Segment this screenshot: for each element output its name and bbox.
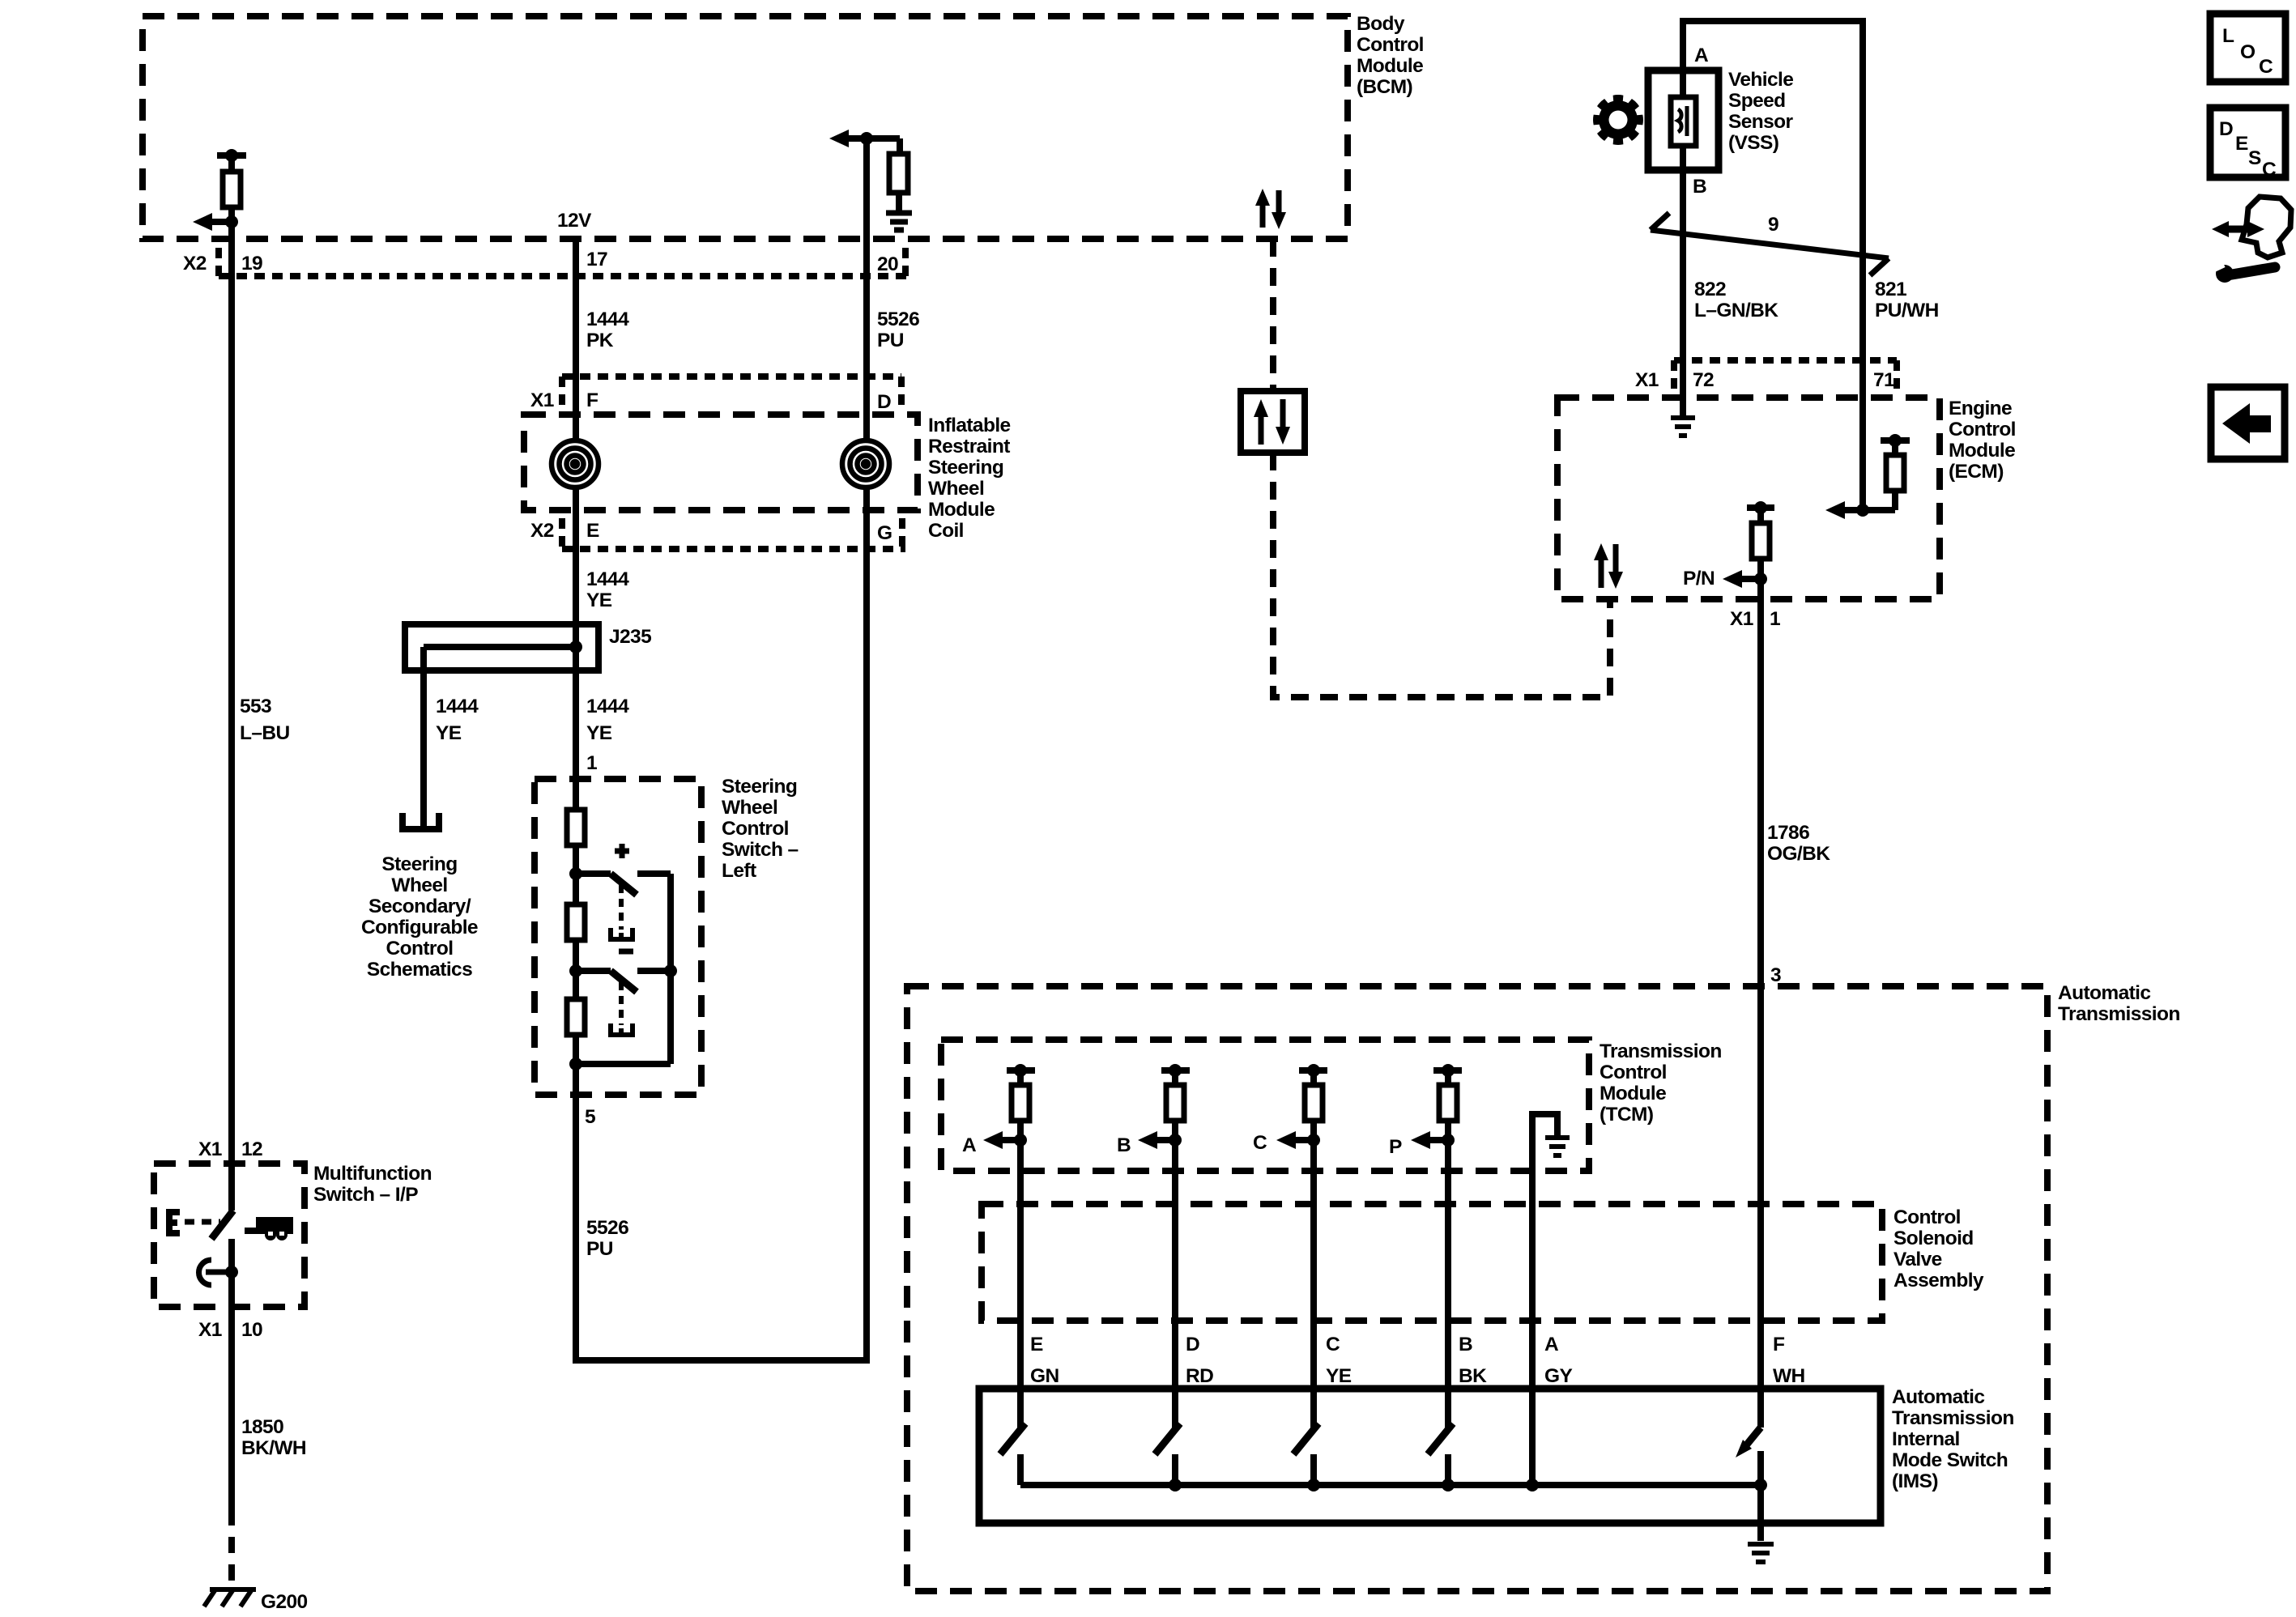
svg-text:(VSS): (VSS) [1728, 132, 1778, 154]
svg-text:Automatic: Automatic [2058, 982, 2150, 1004]
svg-text:P: P [1389, 1136, 1402, 1158]
svg-text:YE: YE [436, 722, 462, 744]
TCM discrete input P [1411, 1064, 1462, 1149]
svg-text:(ECM): (ECM) [1949, 461, 2004, 483]
svg-text:9: 9 [1768, 214, 1778, 236]
VSS inner pickup marks [1678, 106, 1687, 136]
IMS ground drop [1757, 1485, 1764, 1541]
svg-text:X1: X1 [1635, 369, 1659, 391]
node D bus [1169, 1479, 1182, 1491]
svg-text:RD: RD [1186, 1365, 1213, 1387]
up-down data arrows inside BCM [1255, 189, 1286, 229]
resistor 1 in steering wheel switch [567, 810, 585, 845]
TCM discrete input C [1276, 1064, 1327, 1149]
node A bus [1526, 1479, 1539, 1491]
svg-text:Wheel: Wheel [928, 478, 984, 500]
svg-text:Transmission: Transmission [2058, 1003, 2180, 1025]
svg-text:Module: Module [1600, 1083, 1666, 1104]
svg-text:X1: X1 [198, 1319, 222, 1341]
svg-text:Configurable: Configurable [361, 917, 478, 938]
IMS contact C lower wire [1310, 1454, 1317, 1485]
svg-text:Secondary/: Secondary/ [368, 896, 471, 917]
DESC legend box [2210, 108, 2285, 177]
IMS contact D lower wire [1172, 1454, 1178, 1485]
node: bottom junction [569, 1057, 582, 1070]
svg-text:Schematics: Schematics [367, 959, 472, 981]
svg-text:YE: YE [1326, 1365, 1352, 1387]
detent bracket top switch [611, 928, 633, 939]
svg-text:OG/BK: OG/BK [1767, 843, 1830, 865]
svg-text:Sensor: Sensor [1728, 111, 1794, 133]
svg-text:Speed: Speed [1728, 90, 1786, 112]
tow/haul switch blade [211, 1211, 233, 1239]
svg-text:Module: Module [928, 499, 995, 521]
pull-up resistor in ECM on pin 71 [1845, 434, 1910, 510]
svg-text:1850: 1850 [241, 1416, 283, 1438]
IMS switch blade E [1000, 1423, 1025, 1454]
svg-text:(IMS): (IMS) [1892, 1470, 1938, 1492]
wire B from TCM P to IMS [1445, 1140, 1451, 1428]
IMS switch blade C [1293, 1423, 1318, 1454]
svg-text:Control: Control [386, 938, 454, 960]
wire E from TCM A to IMS [1017, 1140, 1024, 1428]
J235 splice pack [405, 624, 598, 670]
svg-text:X1: X1 [198, 1138, 222, 1160]
svg-text:PU: PU [586, 1238, 613, 1260]
svg-text:Automatic: Automatic [1892, 1386, 1984, 1408]
branch wire 1444 YE to secondary controls [420, 647, 427, 829]
Multifunction Switch - I/P dashed box [154, 1164, 305, 1307]
actuator dashes from E [185, 1219, 220, 1225]
wire C from TCM C to IMS [1310, 1140, 1317, 1428]
connector service icon: connector shell outline [2242, 197, 2291, 257]
svg-text:1444: 1444 [586, 568, 629, 590]
actuator dashed link lower switch [619, 982, 624, 1025]
svg-text:821: 821 [1875, 279, 1906, 300]
back arrow glyph [2222, 403, 2271, 444]
svg-text:Restraint: Restraint [928, 436, 1010, 457]
svg-text:F: F [586, 389, 598, 411]
ECM connector X1 dotted line (72,71) [1674, 357, 1897, 364]
svg-text:C: C [1253, 1132, 1267, 1154]
svg-text:P/N: P/N [1683, 568, 1715, 589]
svg-text:Left: Left [722, 860, 756, 882]
svg-text:L–GN/BK: L–GN/BK [1694, 300, 1778, 321]
svg-text:1: 1 [586, 752, 597, 774]
detent bracket lower switch [611, 1023, 633, 1035]
resistor+arrow+ground in BCM at pin 20 [867, 138, 912, 230]
svg-text:(BCM): (BCM) [1357, 76, 1412, 98]
svg-text:Assembly: Assembly [1893, 1270, 1984, 1291]
X1 tick right [898, 377, 905, 407]
wire between resistor2 and junction2 [573, 940, 579, 999]
svg-text:Transmission: Transmission [1600, 1040, 1722, 1062]
svg-text:20: 20 [877, 253, 898, 275]
clockspring coil spiral (right, circuit 5526) [842, 440, 889, 487]
svg-text:X1: X1 [1730, 608, 1753, 630]
svg-text:Control: Control [1893, 1206, 1961, 1228]
svg-text:G: G [877, 522, 892, 544]
svg-text:Module: Module [1949, 440, 2015, 462]
node F bus [1754, 1479, 1767, 1491]
Vehicle Speed Sensor loop wire A to 71 [1683, 21, 1863, 510]
svg-text:Engine: Engine [1949, 398, 2012, 419]
resistor 2 in steering wheel switch [567, 904, 585, 940]
clockspring coil spiral (left, circuit 1444) [552, 440, 598, 487]
svg-text:1444: 1444 [436, 696, 479, 717]
connector X2 dotted line (coil pins E,G) [562, 546, 905, 552]
IMS common bus [1020, 1482, 1761, 1488]
svg-text:Vehicle: Vehicle [1728, 69, 1793, 91]
back arrow legend box [2211, 387, 2285, 459]
LOC legend box [2210, 14, 2285, 82]
svg-text:Module: Module [1357, 55, 1423, 77]
ground symbol inside ECM on pin 72 [1671, 418, 1695, 436]
svg-text:5: 5 [585, 1106, 595, 1128]
Inflatable Restraint Steering Wheel Module Coil dashed box [524, 415, 918, 510]
switch common right wire [667, 874, 674, 1064]
svg-text:72: 72 [1693, 369, 1714, 391]
svg-text:A: A [1694, 45, 1709, 66]
svg-text:GN: GN [1030, 1365, 1059, 1387]
svg-text:1444: 1444 [586, 696, 629, 717]
Engine Control Module (ECM) dashed box [1557, 398, 1940, 599]
signal arrow at BCM pin 19 [193, 213, 238, 231]
svg-text:(TCM): (TCM) [1600, 1104, 1653, 1126]
svg-text:PU/WH: PU/WH [1875, 300, 1939, 321]
X2 connector tick right [902, 248, 909, 276]
Automatic Transmission dashed box [907, 986, 2047, 1591]
Body Control Module (BCM) dashed box [143, 16, 1348, 239]
signal arrow at ECM pin 71 [1825, 501, 1845, 519]
svg-text:Switch – I/P: Switch – I/P [313, 1184, 418, 1206]
svg-text:X2: X2 [530, 520, 554, 542]
E coil glyph [166, 1209, 180, 1236]
svg-text:Wheel: Wheel [391, 874, 447, 896]
svg-text:Control: Control [1357, 34, 1424, 56]
svg-text:Steering: Steering [928, 457, 1003, 479]
BCM connector X2 dotted line (pins 19,17,20) [219, 273, 907, 279]
svg-text:S: S [2248, 147, 2261, 169]
svg-text:C: C [2262, 159, 2277, 181]
X2 tick right [899, 518, 905, 549]
svg-text:G200: G200 [261, 1591, 308, 1613]
IMS switch blade B [1428, 1423, 1453, 1454]
svg-text:Mode Switch: Mode Switch [1892, 1449, 2008, 1471]
svg-text:Valve: Valve [1893, 1249, 1942, 1270]
node: right junction [664, 964, 677, 977]
svg-text:L: L [2222, 25, 2234, 47]
svg-text:Body: Body [1357, 13, 1405, 35]
node: junction top switch [569, 867, 582, 880]
svg-text:Steering: Steering [381, 853, 457, 875]
node C bus [1307, 1479, 1320, 1491]
bottom link wire [576, 1061, 671, 1067]
svg-text:5526: 5526 [586, 1217, 628, 1239]
signal arrow at BCM pin 20 [829, 130, 873, 147]
svg-text:B: B [1693, 176, 1706, 198]
wire circuit 1786 OG/BK from ECM X1-1 down to IMS pin F [1757, 579, 1764, 1428]
svg-text:L–BU: L–BU [240, 722, 290, 744]
svg-text:PU: PU [877, 330, 904, 351]
Automatic Transmission Internal Mode Switch (IMS) box [979, 1389, 1881, 1523]
wire between resistor1 and junction [573, 845, 579, 904]
wire circuit 5526 PU from BCM pin 20 down to coil [863, 138, 870, 442]
G200 chassis ground symbol [204, 1589, 256, 1606]
wire below multifunction switch, solid then dashed to ground [228, 1239, 235, 1509]
svg-text:5526: 5526 [877, 309, 919, 330]
svg-text:B: B [1117, 1134, 1131, 1156]
svg-text:3: 3 [1770, 964, 1781, 986]
svg-text:Multifunction: Multifunction [313, 1163, 432, 1185]
VSS sensor inner element box [1671, 97, 1696, 146]
svg-text:D: D [2219, 118, 2233, 140]
svg-text:F: F [1773, 1334, 1785, 1355]
wire B from sensor down to ECM ground [1680, 170, 1686, 415]
svg-text:X1: X1 [530, 389, 554, 411]
svg-text:BK: BK [1459, 1365, 1487, 1387]
P/N pull-up resistor in ECM [1747, 501, 1774, 579]
wire circuit 1444 PK from BCM pin 17 (12V) down to steering wheel control switch [573, 239, 579, 442]
VSS sensor outer box [1648, 70, 1719, 170]
IMS contact E lower wire [1017, 1454, 1024, 1485]
wire A (ground) from TCM to IMS [1529, 1161, 1536, 1485]
svg-text:12V: 12V [557, 210, 592, 232]
svg-text:Transmission: Transmission [1892, 1407, 2014, 1429]
TCM discrete input A [983, 1064, 1035, 1149]
svg-text:12: 12 [241, 1138, 262, 1160]
svg-text:1: 1 [1770, 608, 1780, 630]
svg-text:X2: X2 [183, 253, 207, 274]
svg-text:E: E [1030, 1334, 1043, 1355]
reluctor gear icon [1593, 95, 1643, 145]
svg-text:Inflatable: Inflatable [928, 415, 1011, 436]
svg-text:GY: GY [1544, 1365, 1572, 1387]
serial data symbol box [1241, 391, 1305, 453]
connector X1 dotted line (coil pins F,D) [562, 373, 901, 380]
connector service icon: wrench [2213, 261, 2275, 283]
svg-text:WH: WH [1773, 1365, 1805, 1387]
svg-text:Control: Control [722, 818, 789, 840]
P/N signal arrow [1723, 570, 1767, 588]
svg-text:Steering: Steering [722, 776, 797, 798]
up-down data arrows inside ECM [1594, 543, 1623, 589]
svg-text:Internal: Internal [1892, 1428, 1960, 1450]
tick left [1671, 360, 1677, 391]
- sign [619, 949, 633, 955]
resistor in BCM on circuit 553 (pin 19) [217, 149, 246, 239]
svg-text:A: A [1544, 1334, 1559, 1355]
wire D from TCM B to IMS [1172, 1140, 1178, 1428]
trailer icon [245, 1217, 293, 1240]
reluctor gear hub [1604, 106, 1632, 134]
svg-text:B: B [1459, 1334, 1472, 1355]
spring return arc and contact [198, 1260, 232, 1285]
svg-text:YE: YE [586, 722, 612, 744]
IMS switch blade F (closed) [1736, 1428, 1761, 1487]
serial data dashed line below box, to ECM [1273, 453, 1610, 697]
svg-text:17: 17 [586, 249, 607, 270]
svg-text:E: E [586, 520, 599, 542]
svg-text:PK: PK [586, 330, 614, 351]
svg-text:Control: Control [1600, 1062, 1667, 1083]
svg-text:A: A [962, 1134, 977, 1156]
svg-text:YE: YE [586, 589, 612, 611]
X2 tick left [559, 518, 565, 549]
svg-text:553: 553 [240, 696, 271, 717]
svg-text:19: 19 [241, 253, 262, 274]
svg-text:C: C [1326, 1334, 1340, 1355]
IMS contact B lower wire [1445, 1454, 1451, 1485]
harness crossing symbol 9 [1651, 213, 1889, 275]
switch - (volume down) blade [576, 971, 671, 992]
svg-text:Control: Control [1949, 419, 2016, 440]
Transmission Control Module (TCM) dashed box [941, 1040, 1589, 1171]
svg-text:C: C [2259, 56, 2273, 78]
svg-text:BK/WH: BK/WH [241, 1437, 306, 1459]
serial data dashed line BCM to ECM [1270, 239, 1276, 391]
svg-text:Coil: Coil [928, 520, 964, 542]
svg-text:D: D [1186, 1334, 1199, 1355]
actuator dashed link top switch [619, 885, 624, 930]
svg-text:71: 71 [1873, 369, 1894, 391]
TCM internal ground for IMS pin A [1532, 1114, 1570, 1161]
svg-text:10: 10 [241, 1319, 262, 1341]
+ sign [615, 844, 629, 858]
svg-text:Solenoid: Solenoid [1893, 1228, 1974, 1249]
wire below resistor3 [573, 1035, 579, 1064]
svg-text:J235: J235 [609, 626, 651, 648]
IMS switch blade D [1155, 1423, 1180, 1454]
svg-text:822: 822 [1694, 279, 1726, 300]
svg-text:1444: 1444 [586, 309, 629, 330]
node: junction lower switch [569, 964, 582, 977]
wire 5526 PU below coil down, right, up loop to steering wheel switch pin 5 [576, 487, 867, 1360]
X2 connector tick left [215, 248, 222, 276]
svg-text:Wheel: Wheel [722, 797, 777, 819]
switch + (volume up) blade [576, 874, 671, 895]
wire circuit 553 from BCM pin 19 down to multifunction switch [228, 222, 235, 1211]
connector service icon: double arrow [2212, 221, 2264, 237]
Steering Wheel Control Switch - Left dashed box [535, 779, 701, 1095]
X1 tick left [559, 377, 565, 408]
label Steering Wheel Secondary/Configurable Control Schematics [361, 853, 478, 981]
svg-text:Switch –: Switch – [722, 839, 799, 861]
resistor 3 in steering wheel switch [567, 999, 585, 1035]
IMS case ground symbol [1748, 1544, 1774, 1562]
svg-text:E: E [2235, 133, 2248, 155]
node B bus [1442, 1479, 1455, 1491]
TCM discrete input B [1138, 1064, 1190, 1149]
tick right [1893, 360, 1900, 389]
Control Solenoid Valve Assembly dashed box [982, 1204, 1882, 1321]
svg-text:D: D [877, 391, 891, 413]
svg-text:1786: 1786 [1767, 822, 1809, 844]
off-page bracket (steering wheel secondary controls) [403, 813, 439, 829]
up-down arrows in serial data box [1254, 399, 1290, 445]
svg-text:O: O [2240, 41, 2256, 63]
